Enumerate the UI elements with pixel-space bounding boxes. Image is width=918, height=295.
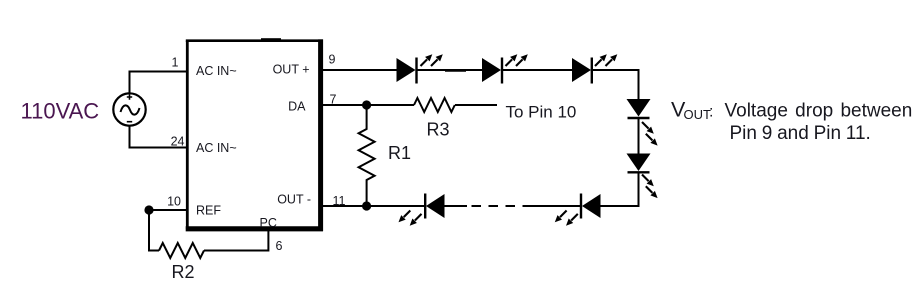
voltage source V1 110VAC bbox=[113, 93, 145, 125]
LED D6 light arrows bbox=[555, 211, 578, 226]
svg-text:Pin 9 and Pin 11.: Pin 9 and Pin 11. bbox=[730, 123, 871, 144]
wire: R2 to pin 6 stub bbox=[204, 231, 268, 251]
svg-text:AC IN~: AC IN~ bbox=[196, 64, 237, 78]
svg-text:10: 10 bbox=[167, 195, 181, 209]
wire: D5 down to bottom-right corner to D6 bbox=[601, 172, 639, 206]
resistor R3 bbox=[414, 98, 455, 112]
wire artifact thickening bbox=[445, 70, 466, 72]
dashed wire between D6 and D7 bbox=[532, 205, 581, 207]
wire: D2 to D3 bbox=[502, 69, 572, 71]
LED D6 bbox=[581, 194, 601, 219]
LED D5 light arrows bbox=[642, 175, 658, 199]
wire: dash end to LED D7 bbox=[445, 205, 468, 207]
resistor R1 bbox=[359, 105, 375, 206]
svg-text:R1: R1 bbox=[388, 143, 411, 163]
LED D3 bbox=[572, 58, 592, 84]
wire: REF node down to R2 bbox=[149, 210, 159, 251]
svg-text:OUT +: OUT + bbox=[273, 63, 310, 77]
LED D2 light arrows bbox=[506, 54, 528, 66]
LED D7 bbox=[425, 194, 444, 219]
svg-text:AC IN~: AC IN~ bbox=[196, 141, 237, 155]
wire: D1 to D2 bbox=[417, 69, 483, 71]
svg-text:7: 7 bbox=[330, 93, 337, 107]
wire: D3 to top-right corner down to D4 bbox=[592, 70, 639, 99]
svg-text:REF: REF bbox=[196, 204, 221, 218]
LED D4 bbox=[627, 99, 651, 118]
svg-text:9: 9 bbox=[329, 53, 336, 67]
svg-text:Voltage drop between: Voltage drop between bbox=[725, 101, 913, 122]
wire: R3 to label bbox=[455, 104, 497, 106]
svg-text:DA: DA bbox=[288, 100, 306, 114]
LED D1 bbox=[397, 58, 417, 84]
svg-text:R2: R2 bbox=[172, 262, 195, 282]
node dot R1 top / pin 7 bbox=[362, 100, 371, 109]
node dot R1 bottom / pin 11 bbox=[362, 201, 371, 210]
svg-text:6: 6 bbox=[276, 239, 283, 253]
node dot REF bbox=[144, 205, 153, 214]
LED D7 light arrows bbox=[399, 211, 422, 226]
wire: D7 to pin 11 node and into OUT- bbox=[323, 205, 425, 207]
IC U1 box bbox=[186, 38, 323, 231]
LED D2 bbox=[482, 58, 502, 84]
resistor R2 bbox=[159, 243, 204, 258]
svg-text::: : bbox=[709, 104, 713, 121]
svg-text:24: 24 bbox=[171, 135, 185, 149]
wire: REF pin 10 bbox=[149, 209, 187, 211]
LED D4 light arrows bbox=[642, 122, 658, 146]
LED D5 bbox=[627, 154, 651, 173]
svg-text:R3: R3 bbox=[427, 120, 450, 140]
svg-text:PC: PC bbox=[260, 216, 277, 230]
LED D3 light arrows bbox=[595, 54, 617, 66]
svg-text:To Pin 10: To Pin 10 bbox=[506, 103, 577, 122]
svg-text:OUT -: OUT - bbox=[277, 193, 311, 207]
label VOUT bbox=[671, 98, 713, 123]
svg-text:OUT: OUT bbox=[684, 107, 712, 122]
svg-text:1: 1 bbox=[172, 56, 179, 70]
wire: pin 9 OUT+ to LED D1 bbox=[323, 69, 397, 71]
wire: pin 7 DA to node bbox=[323, 104, 414, 106]
wire: source top to pin 1 bbox=[130, 72, 188, 94]
LED D1 light arrows bbox=[421, 54, 443, 66]
svg-text:11: 11 bbox=[333, 194, 346, 208]
wire: source bottom to pin 24 bbox=[130, 126, 188, 148]
wire: D4 to D5 bbox=[638, 118, 640, 154]
svg-text:110VAC: 110VAC bbox=[21, 99, 100, 124]
